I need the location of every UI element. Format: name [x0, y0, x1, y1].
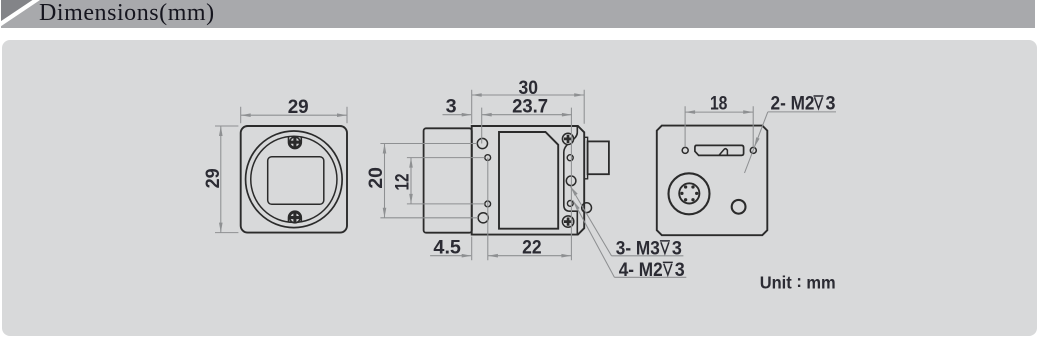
svg-text:18: 18: [710, 93, 728, 115]
svg-text:2- M2: 2- M2: [771, 92, 815, 114]
side rear M2 hole top: [567, 155, 573, 161]
dim line side 4.5: [430, 255, 471, 257]
front lens mount inner circle: [251, 136, 337, 222]
ext lines side 20: [380, 144, 478, 218]
side lens barrel: [424, 128, 472, 232]
leader 2-M2: [745, 112, 837, 173]
ext lines front top 29: [241, 107, 347, 123]
back USB slot: [695, 145, 744, 155]
side top screw: [562, 133, 573, 144]
arrows back 18: [685, 110, 695, 114]
leader 3-M3: [571, 187, 684, 256]
depth symbol for 4-M2: [663, 262, 673, 275]
front top screw: [290, 137, 300, 147]
ext line side rear column: [570, 108, 572, 261]
arrow leader 2-M2: [754, 137, 759, 147]
ext lines side 30: [472, 90, 585, 124]
dim line side 20: [384, 144, 386, 218]
arrows side 12: [409, 158, 413, 168]
ext lines front left 29: [215, 126, 238, 233]
arrows side 30: [472, 93, 482, 97]
side body: [472, 126, 585, 235]
back USB slot tab: [719, 149, 727, 156]
svg-text:Unit : mm: Unit : mm: [760, 271, 836, 293]
side bottom screw: [562, 216, 573, 227]
side rear groove: [564, 126, 578, 234]
svg-text:29: 29: [288, 96, 309, 118]
svg-text:3- M3: 3- M3: [616, 237, 660, 259]
arrows side 22: [488, 254, 498, 258]
front sensor window: [268, 157, 324, 205]
arrow leader 4-M2: [573, 201, 580, 210]
svg-text:3: 3: [672, 237, 682, 259]
dim line side 30: [472, 94, 585, 96]
svg-text:4- M2: 4- M2: [619, 259, 663, 281]
side front M2 hole bottom: [485, 201, 491, 207]
ext lines side 12: [407, 158, 485, 204]
side front M3 hole top: [477, 138, 487, 148]
arrows front 29 left: [219, 126, 223, 136]
back M2 hole right: [750, 147, 756, 153]
front body square: [241, 126, 347, 233]
arrows side 20: [383, 144, 387, 154]
side chamfer hole: [582, 203, 592, 213]
arrows side 23.7: [482, 113, 492, 117]
svg-text:20: 20: [365, 167, 387, 189]
arrows front 29 top: [241, 113, 251, 117]
arrow side 3: [462, 113, 472, 117]
ext lines back 18: [685, 106, 753, 147]
depth symbol for 3-M3: [660, 96, 824, 275]
svg-text:22: 22: [522, 237, 542, 259]
svg-text:29: 29: [202, 168, 224, 188]
ext lines side bottom: [472, 158, 488, 261]
header title: [39, 0, 215, 27]
dim line side 22: [488, 255, 572, 257]
side rear M2 hole bottom: [567, 201, 573, 207]
side front M3 hole bottom: [478, 213, 488, 223]
svg-text:3: 3: [826, 92, 836, 114]
dim line side 12: [410, 158, 412, 204]
ext line side 23.7 left: [481, 108, 483, 144]
side rear M3 hole middle: [566, 176, 576, 186]
connector plate: [584, 137, 587, 179]
front bottom screw boss: [289, 211, 302, 222]
dim line back 18: [685, 111, 753, 113]
leader 4-M2: [573, 201, 686, 278]
side front M2 hole top: [485, 155, 491, 161]
dim line front 29 top: [241, 114, 347, 116]
arrow leader 3-M3: [571, 187, 578, 196]
svg-text:3: 3: [675, 259, 685, 281]
depth symbol for 2-M2: [814, 96, 824, 109]
svg-text:12: 12: [392, 173, 414, 190]
back power connector pins: [680, 185, 698, 201]
connector plug: [588, 141, 609, 174]
header grey bar: [1, 0, 1035, 28]
dim line side 3: [443, 114, 472, 116]
back M2 hole left: [682, 147, 688, 153]
svg-text:4.5: 4.5: [433, 237, 461, 259]
front lens mount outer circle: [246, 131, 343, 228]
svg-text:23.7: 23.7: [512, 96, 548, 118]
back body: [657, 126, 768, 236]
front top screw boss: [289, 136, 302, 148]
front bottom screw: [290, 212, 300, 222]
side label recess: [499, 132, 558, 229]
dim line side 23.7: [482, 114, 572, 116]
back power connector inner: [679, 183, 699, 203]
dim line front 29 left: [220, 126, 222, 233]
back LED hole: [732, 200, 746, 214]
arrow side 4.5: [462, 254, 472, 258]
svg-text:3: 3: [446, 95, 457, 117]
back power connector outer: [669, 173, 710, 214]
header corner decoration: [0, 0, 50, 30]
